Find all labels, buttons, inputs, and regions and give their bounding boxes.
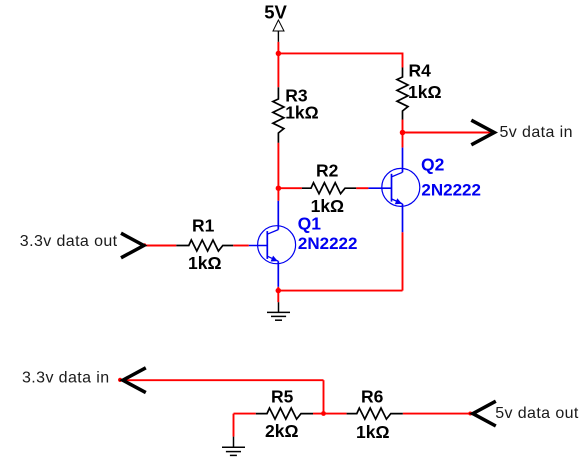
svg-text:R5: R5 — [271, 387, 294, 407]
svg-text:1kΩ: 1kΩ — [408, 82, 442, 102]
svg-text:2kΩ: 2kΩ — [265, 421, 299, 441]
svg-text:R6: R6 — [361, 387, 384, 407]
svg-text:5v data in: 5v data in — [500, 124, 573, 141]
svg-text:R4: R4 — [409, 61, 432, 81]
svg-text:1kΩ: 1kΩ — [285, 103, 319, 123]
svg-text:Q1: Q1 — [298, 214, 322, 234]
svg-text:3.3v data in: 3.3v data in — [22, 370, 110, 387]
svg-text:1kΩ: 1kΩ — [356, 422, 390, 442]
svg-text:1kΩ: 1kΩ — [188, 253, 222, 273]
svg-text:5V: 5V — [264, 2, 287, 23]
svg-text:R2: R2 — [316, 160, 339, 180]
svg-text:2N2222: 2N2222 — [421, 181, 481, 200]
svg-text:2N2222: 2N2222 — [298, 234, 358, 253]
svg-text:R1: R1 — [192, 216, 215, 236]
svg-text:3.3v data out: 3.3v data out — [20, 233, 118, 250]
svg-text:Q2: Q2 — [421, 155, 445, 175]
svg-text:5v data out: 5v data out — [495, 405, 579, 422]
